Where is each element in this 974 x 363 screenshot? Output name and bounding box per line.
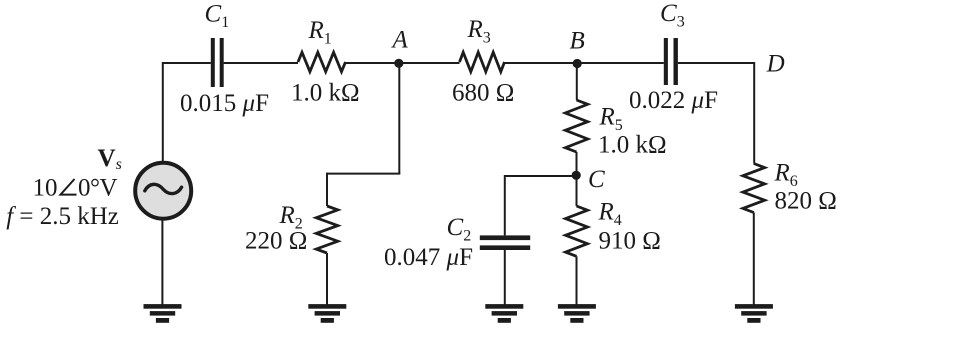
svg-text:Vs: Vs bbox=[98, 145, 122, 173]
resistor R2 bbox=[316, 206, 338, 253]
wire node C horizontal to C2 branch bbox=[505, 175, 577, 177]
svg-text:C1: C1 bbox=[205, 0, 230, 31]
voltage source Vs (AC) bbox=[135, 163, 191, 219]
wire top rail left segment bbox=[163, 62, 211, 64]
wire jog A to R2 bbox=[327, 173, 400, 175]
ground (R4) bbox=[558, 304, 596, 323]
wire R6 bottom lead bbox=[753, 213, 755, 306]
svg-text:D: D bbox=[766, 51, 785, 78]
wire C2 top lead bbox=[504, 175, 506, 235]
capacitor C3 bbox=[664, 38, 678, 85]
wire R2 bottom lead bbox=[326, 253, 328, 305]
ground (R2) bbox=[308, 304, 346, 323]
node B bbox=[573, 59, 582, 68]
wire R4 bottom lead bbox=[576, 256, 578, 305]
svg-text:B: B bbox=[570, 27, 585, 54]
ground (R6) bbox=[735, 304, 773, 323]
wire R5 to R4 (through node C) bbox=[576, 152, 578, 206]
svg-text:1.0 kΩ: 1.0 kΩ bbox=[598, 132, 667, 159]
svg-text:910 Ω: 910 Ω bbox=[599, 228, 661, 255]
wire R1 to R3 (through node A) bbox=[346, 62, 460, 64]
wire node B drop to R5 bbox=[576, 63, 578, 100]
wire source bottom lead bbox=[161, 217, 163, 305]
angle symbol (drawn) bbox=[61, 179, 77, 195]
wire R2 top lead bbox=[326, 173, 328, 206]
resistor R1 bbox=[298, 52, 346, 71]
svg-text:0.047 μF: 0.047 μF bbox=[384, 244, 473, 271]
svg-text:A: A bbox=[391, 27, 409, 54]
svg-text:220 Ω: 220 Ω bbox=[245, 228, 307, 255]
wire node A drop bbox=[398, 63, 400, 174]
wire D drop to R6 bbox=[753, 62, 755, 164]
svg-text:f = 2.5 kHz: f = 2.5 kHz bbox=[6, 203, 119, 230]
wire source top lead bbox=[162, 62, 164, 164]
svg-text:680 Ω: 680 Ω bbox=[452, 80, 514, 107]
resistor R5 bbox=[565, 100, 587, 152]
resistor R3 bbox=[460, 52, 505, 71]
svg-text:R5: R5 bbox=[599, 104, 623, 135]
svg-text:0°V: 0°V bbox=[78, 174, 117, 201]
svg-text:R4: R4 bbox=[598, 199, 622, 230]
capacitor C2 bbox=[480, 235, 530, 250]
svg-text:C2: C2 bbox=[447, 214, 472, 245]
resistor R4 bbox=[566, 206, 588, 256]
ground (C2) bbox=[485, 304, 523, 323]
svg-text:0.022 μF: 0.022 μF bbox=[629, 87, 718, 114]
resistor R6 bbox=[743, 164, 765, 213]
node C bbox=[572, 171, 581, 180]
wire C3 to corner D bbox=[678, 62, 754, 64]
ground (source) bbox=[144, 304, 182, 323]
wire R3 to C3 (through node B) bbox=[505, 62, 664, 64]
svg-text:10: 10 bbox=[33, 174, 58, 201]
svg-text:C: C bbox=[588, 166, 605, 193]
svg-text:R3: R3 bbox=[467, 16, 491, 47]
svg-text:C3: C3 bbox=[660, 0, 685, 31]
svg-text:0.015 μF: 0.015 μF bbox=[180, 90, 269, 117]
svg-text:1.0 kΩ: 1.0 kΩ bbox=[291, 80, 360, 107]
svg-text:R1: R1 bbox=[308, 17, 332, 48]
svg-text:R6: R6 bbox=[774, 159, 798, 190]
wire C2 bottom lead bbox=[504, 250, 506, 305]
node A bbox=[394, 59, 403, 68]
wire C1 to R1 bbox=[224, 62, 298, 64]
svg-text:820 Ω: 820 Ω bbox=[775, 188, 837, 215]
capacitor C1 bbox=[211, 38, 224, 87]
